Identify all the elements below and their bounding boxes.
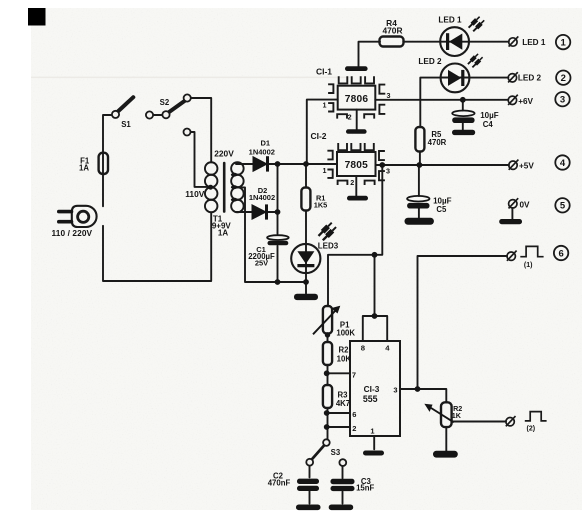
svg-text:D1: D1	[261, 139, 271, 148]
svg-text:25V: 25V	[255, 259, 268, 268]
svg-text:LED3: LED3	[318, 242, 339, 251]
svg-text:+6V: +6V	[518, 97, 533, 106]
svg-text:8: 8	[361, 344, 366, 353]
svg-text:+5V: +5V	[519, 162, 534, 171]
svg-text:LED 2: LED 2	[518, 73, 542, 82]
svg-text:4K7: 4K7	[336, 399, 350, 408]
svg-text:470R: 470R	[382, 25, 402, 35]
svg-text:3: 3	[386, 166, 390, 175]
svg-text:220V: 220V	[214, 149, 234, 159]
svg-text:CI-1: CI-1	[316, 67, 332, 77]
svg-text:LED 1: LED 1	[438, 16, 462, 25]
svg-text:3: 3	[393, 385, 397, 394]
svg-text:(2): (2)	[527, 425, 536, 432]
svg-text:100K: 100K	[336, 329, 355, 338]
svg-text:10K: 10K	[337, 354, 352, 363]
svg-text:470R: 470R	[428, 138, 447, 147]
svg-text:7805: 7805	[345, 160, 369, 171]
svg-text:1: 1	[560, 38, 566, 49]
svg-text:2: 2	[348, 113, 352, 122]
svg-text:1N4002: 1N4002	[249, 148, 275, 157]
svg-text:1N4002: 1N4002	[249, 193, 275, 202]
svg-text:LED 2: LED 2	[418, 57, 442, 66]
svg-text:4: 4	[560, 158, 566, 169]
svg-text:470nF: 470nF	[268, 479, 291, 488]
svg-text:555: 555	[363, 394, 378, 404]
svg-text:10µF: 10µF	[480, 111, 499, 120]
svg-text:LED 1: LED 1	[522, 38, 546, 47]
svg-text:1: 1	[323, 101, 327, 110]
svg-text:7806: 7806	[345, 94, 369, 105]
svg-text:0V: 0V	[520, 201, 531, 210]
svg-text:(1): (1)	[524, 262, 533, 269]
svg-text:6: 6	[558, 248, 563, 259]
svg-text:5: 5	[560, 201, 566, 212]
svg-text:1A: 1A	[79, 164, 89, 173]
svg-text:1: 1	[370, 427, 374, 436]
svg-text:R2: R2	[339, 345, 350, 354]
svg-text:S1: S1	[121, 120, 131, 129]
svg-text:6: 6	[352, 410, 356, 419]
svg-text:1K: 1K	[452, 411, 462, 420]
svg-text:110V: 110V	[185, 189, 205, 199]
svg-text:15nF: 15nF	[356, 484, 374, 493]
svg-text:3: 3	[560, 95, 565, 106]
svg-text:4: 4	[385, 344, 390, 353]
svg-text:3: 3	[387, 91, 391, 100]
svg-text:2: 2	[561, 73, 566, 84]
svg-text:2: 2	[350, 178, 354, 187]
svg-text:CI-3: CI-3	[364, 384, 380, 394]
svg-text:1K5: 1K5	[314, 200, 328, 209]
svg-text:2: 2	[352, 424, 356, 433]
svg-text:S3: S3	[331, 448, 341, 457]
svg-text:S2: S2	[160, 98, 170, 107]
svg-text:1: 1	[323, 166, 327, 175]
svg-text:C4: C4	[483, 120, 494, 129]
svg-text:1A: 1A	[218, 228, 228, 237]
svg-text:CI-2: CI-2	[310, 131, 326, 141]
svg-text:110 / 220V: 110 / 220V	[52, 228, 93, 238]
svg-text:7: 7	[352, 370, 356, 379]
svg-text:C5: C5	[436, 205, 447, 214]
